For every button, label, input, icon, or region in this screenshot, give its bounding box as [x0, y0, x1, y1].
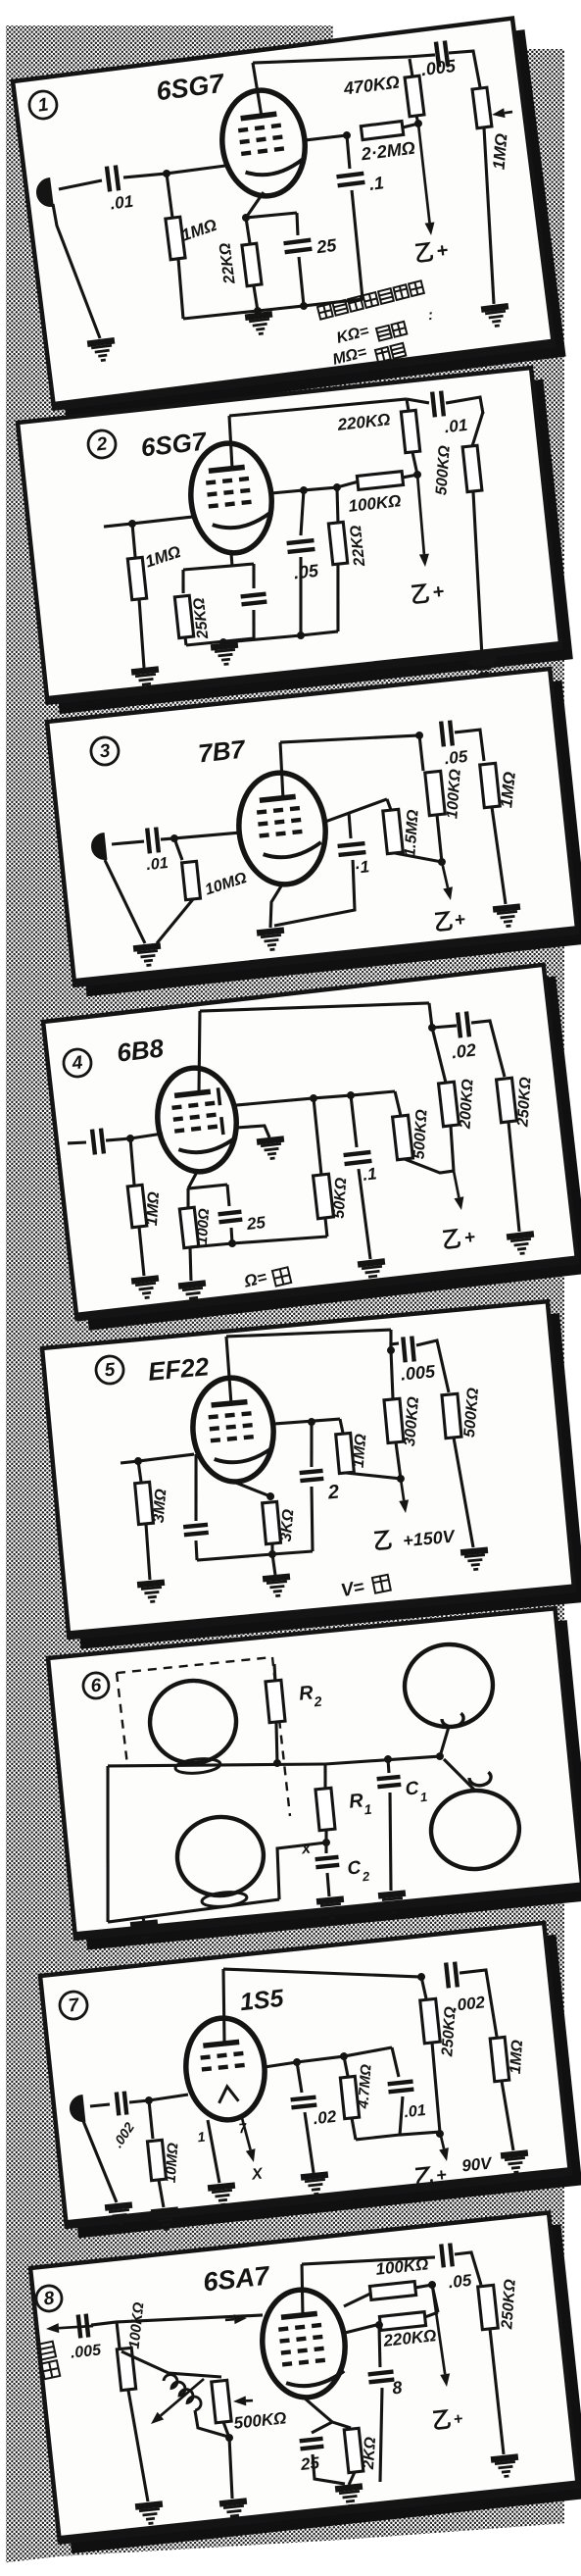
label yi B-plus — [433, 2410, 450, 2429]
wire 300K bottom — [396, 1442, 401, 1479]
svg-text:1.5MΩ: 1.5MΩ — [402, 809, 421, 858]
wire 500K top — [468, 412, 486, 446]
wire pickup to cap — [90, 2104, 110, 2106]
B+ arrow — [437, 2131, 450, 2161]
note capacitor units — [317, 280, 424, 319]
ground center — [245, 314, 274, 335]
wire C1 top — [388, 1759, 390, 1773]
svg-text:500KΩ: 500KΩ — [411, 1108, 430, 1159]
resistor 100K right — [369, 2282, 415, 2300]
bias top wire — [188, 1184, 227, 1188]
wire C.05 down — [293, 557, 310, 635]
svg-text:.01: .01 — [146, 855, 169, 874]
capacitor .02 — [291, 2097, 317, 2108]
resistor 2K — [344, 2428, 363, 2472]
wire node to tube — [130, 1134, 163, 1138]
node loop left — [340, 2052, 349, 2061]
panel 4 (6B8 stage) shadow — [55, 976, 581, 1330]
node plate rail — [387, 1346, 396, 1355]
svg-text:C: C — [347, 1857, 363, 1879]
wire R1M down — [138, 1227, 144, 1276]
ground 3K — [263, 1577, 292, 1597]
dashed box top — [117, 1657, 272, 1673]
wire grid cap — [190, 1454, 203, 1521]
ground cathode — [211, 644, 240, 665]
svg-text:10MΩ: 10MΩ — [163, 2142, 182, 2183]
panel 6 (oscillator coils) — [48, 1607, 581, 1950]
node grid — [145, 2096, 154, 2105]
wire 100K to node — [437, 815, 442, 862]
wire R2 bottom — [273, 1722, 280, 1762]
wire C2 down — [307, 1487, 317, 1551]
svg-text:1: 1 — [419, 1790, 428, 1805]
wire R1 bottom — [324, 1830, 329, 1853]
ground right — [493, 907, 522, 928]
plate lead to top rail — [253, 63, 262, 118]
resistor 1M — [127, 557, 146, 599]
coil bottom-right — [427, 1787, 522, 1873]
wire pickup to C.01 — [112, 841, 144, 845]
B+ arrow — [411, 475, 430, 568]
input arrow to previous stage — [46, 2319, 94, 2334]
resistor R1 — [315, 1788, 335, 1830]
capacitor 25 — [300, 2439, 324, 2450]
panel 4 (6B8 stage) bottom border — [76, 1260, 577, 1317]
wire C.1 top — [351, 1095, 357, 1147]
capacitor .01 — [107, 166, 119, 192]
panel 6 (oscillator coils) bottom border — [75, 1887, 581, 1937]
wire lower coil to junction — [444, 1756, 475, 1793]
node top rail — [417, 1973, 426, 1982]
label qianji previous-stage — [37, 2342, 60, 2380]
node bias rail — [228, 1239, 237, 1248]
wire .01 bottom — [396, 2096, 407, 2135]
curl bottom-right — [469, 1772, 492, 1787]
wire screen node to C.1 — [346, 135, 352, 169]
wire cathode to node — [243, 192, 266, 218]
wire R10M down — [153, 899, 198, 943]
coil top-left cap — [174, 1757, 220, 1775]
ground 1M — [131, 1278, 161, 1298]
node .02 left — [428, 1024, 437, 1033]
panel 1 (6SG7 stage) shadow — [25, 29, 566, 420]
top rail — [253, 43, 408, 76]
wire C.1 down to rail — [349, 190, 365, 299]
label yi+ B-plus — [435, 912, 452, 930]
potentiometer 500K — [212, 2380, 231, 2422]
wire 500K to ground — [464, 491, 491, 657]
capacitor .1 — [338, 843, 366, 855]
node B+ junction — [413, 471, 422, 480]
panel 7 (1S5 stage) paper — [40, 1923, 570, 2227]
wire 1M bottom — [346, 1468, 401, 1484]
wire C.01 right — [446, 397, 483, 418]
node top rail — [415, 732, 424, 740]
pot wiper arrow — [233, 2396, 254, 2407]
bias bottom rail — [190, 1232, 327, 1252]
svg-text:500KΩ: 500KΩ — [433, 444, 453, 495]
resistor 1M — [480, 763, 501, 807]
wire R25K to bottom — [183, 637, 187, 645]
panel 8 (6SA7 stage) paper — [30, 2212, 578, 2542]
wire node to R3M — [138, 1461, 141, 1482]
resistor 1M — [490, 2037, 509, 2081]
wire node to tube — [149, 2095, 188, 2100]
wire 220K to node — [412, 452, 417, 476]
resistor 250K — [420, 1998, 441, 2043]
plate lead to top rail — [297, 2264, 307, 2316]
wire R1M to bottom rail — [175, 259, 185, 319]
wire C25 to rail — [298, 257, 306, 306]
wire cap to node — [106, 1137, 130, 1141]
capacitor .01 — [432, 391, 444, 418]
cathode lead — [231, 553, 233, 566]
wire grid node to tube — [167, 166, 225, 174]
resistor 22K — [242, 243, 262, 286]
capacitor grid — [183, 1525, 209, 1535]
wire 200K top — [432, 1027, 446, 1084]
wire cap to node — [129, 2100, 149, 2102]
panel 7 (1S5 stage) bottom border — [67, 2172, 570, 2225]
resistor 3K — [263, 1501, 281, 1543]
capacitor .05 — [441, 721, 453, 747]
svg-text:1MΩ: 1MΩ — [508, 2039, 526, 2074]
resistor R2 — [266, 1680, 285, 1722]
ground pickup — [105, 2205, 134, 2226]
resistor 500K — [393, 1115, 413, 1160]
wire pickup to ground — [53, 200, 100, 342]
svg-text:25: 25 — [315, 235, 338, 258]
node screen C2 — [308, 1418, 316, 1427]
ground C2 — [316, 1899, 346, 1920]
capacitor .1 — [344, 1152, 372, 1164]
left vertical wire — [93, 1766, 123, 1922]
wire 1.5M to node — [395, 848, 442, 867]
wire 250K top — [421, 1977, 426, 1999]
capacitor .002 input — [117, 2092, 126, 2116]
node cathode gnd — [219, 638, 228, 647]
node grid junction — [163, 169, 171, 177]
capacitor cathode — [241, 594, 267, 605]
ground 3M — [137, 1583, 167, 1603]
node grid — [126, 1135, 135, 1143]
panel 3 (7B7 stage) bottom border — [74, 931, 577, 984]
ground C1 — [378, 1894, 408, 1914]
node diode rail C1 — [347, 1091, 356, 1100]
node B+ junction — [413, 119, 422, 127]
wire R10M down — [159, 2180, 164, 2207]
svg-text:25: 25 — [299, 2453, 320, 2474]
capacitor .002 top — [446, 1962, 458, 1989]
panel 2 (6SG7 stage) paper — [18, 368, 561, 702]
wire right coils junction — [437, 1727, 452, 1756]
node R2 rail — [273, 1759, 282, 1768]
panel 6 (oscillator coils) shadow — [60, 1620, 581, 1949]
capacitor .1 — [337, 174, 365, 185]
svg-text:2: 2 — [313, 1693, 323, 1710]
ground 100K — [135, 2504, 165, 2525]
node screen-C05 — [300, 486, 309, 495]
panel 2 (6SG7 stage) — [18, 367, 574, 725]
svg-text:2KΩ: 2KΩ — [361, 2436, 379, 2471]
wire 470K top — [410, 59, 412, 76]
tube 6B8 envelope — [152, 1064, 241, 1176]
wire cap right — [460, 1970, 497, 2041]
coil top-left — [146, 1677, 240, 1767]
node grid — [134, 1457, 143, 1466]
label yi B-plus — [374, 1532, 391, 1549]
note fu glyph — [372, 1575, 391, 1593]
wire node to R10M — [174, 837, 182, 860]
ground bottom-left — [130, 1923, 160, 1944]
svg-text:6B8: 6B8 — [116, 1033, 166, 1067]
svg-text:.02: .02 — [451, 1040, 477, 1063]
plate lead to top rail — [226, 416, 234, 469]
osc coil lead top — [169, 2367, 221, 2382]
ground diode — [257, 1138, 286, 1159]
node B+ — [436, 2130, 445, 2139]
wire 500K bottom — [223, 2421, 229, 2438]
svg-text:.05: .05 — [293, 561, 320, 583]
svg-text:.1: .1 — [362, 1164, 377, 1184]
wire corner down — [117, 2322, 120, 2349]
wire 8 down — [370, 2388, 392, 2482]
tube EF22 envelope — [188, 1374, 277, 1485]
node B+ — [438, 858, 447, 867]
wire 22K down — [331, 565, 345, 631]
node screen — [343, 131, 352, 140]
ground right — [469, 659, 499, 680]
panel 3 (7B7 stage) paper — [47, 669, 577, 985]
panel 1 (6SG7 stage) paper — [13, 19, 554, 409]
svg-text:1MΩ: 1MΩ — [351, 1433, 370, 1469]
wire node to tube — [138, 1454, 194, 1461]
svg-text:250KΩ: 250KΩ — [514, 1076, 534, 1128]
wire 22K top — [334, 487, 341, 523]
plate lead to top rail — [277, 742, 286, 799]
screen rail — [273, 1418, 340, 1426]
cathode net bottom wire — [186, 638, 254, 646]
wire down to R25K — [181, 570, 186, 593]
ground bottom right — [481, 306, 510, 328]
ground 2K — [335, 2487, 364, 2507]
node bottom rail — [268, 1550, 277, 1559]
tube 7B7 envelope — [233, 769, 330, 889]
node screen-R100K — [333, 483, 342, 492]
plate lead to top rail — [217, 1969, 231, 2045]
wire 250K down — [490, 2329, 504, 2454]
wire plate to C.1 — [348, 813, 351, 838]
wire 8 cap top — [375, 2325, 383, 2367]
wire cap to corner — [91, 2322, 117, 2325]
ground 100 — [178, 1283, 208, 1303]
bottom wire up — [274, 1843, 331, 1899]
svg-text:200KΩ: 200KΩ — [457, 1078, 476, 1130]
panel 1 (6SG7 stage) — [13, 17, 566, 421]
plate wire to 100K — [343, 2294, 371, 2306]
tube 1S5 envelope — [181, 2014, 269, 2124]
svg-text:·1: ·1 — [354, 857, 370, 877]
svg-text:1MΩ: 1MΩ — [490, 132, 511, 170]
wire 2.2M to B+ node — [403, 124, 418, 127]
loop bottom wire — [356, 2131, 440, 2141]
bottom wire — [107, 1899, 279, 1922]
ground 10M — [151, 2210, 180, 2231]
cathode lead — [186, 1172, 199, 1188]
wire 3K bottom — [271, 1543, 273, 1554]
resistor 500K — [462, 445, 482, 491]
top rail — [200, 985, 429, 1030]
tube 6SA7 envelope — [257, 2286, 350, 2401]
node C1 rail — [384, 1755, 393, 1764]
wire 200K to arrow — [449, 1126, 456, 1171]
panel 8 (6SA7 stage) — [29, 2211, 581, 2554]
B+ arrow — [440, 861, 454, 901]
circled number 5 — [95, 1355, 124, 1385]
B+ arrow — [430, 2284, 451, 2387]
diode wire to ground — [236, 1124, 269, 1140]
wire .02 left lead — [432, 1025, 457, 1029]
node 8 cap — [375, 2321, 384, 2330]
loop top wire — [344, 2047, 393, 2056]
svg-text:.1: .1 — [368, 173, 385, 194]
panel 4 (6B8 stage) paper — [43, 965, 577, 1319]
wire 4.7M bottom — [352, 2118, 356, 2140]
panel 5 (EF22 stage) shadow — [54, 1313, 581, 1649]
wire C.1 down — [268, 860, 359, 926]
svg-text:1S5: 1S5 — [239, 1985, 286, 2017]
capacitor 8 — [368, 2372, 395, 2383]
wire C2 down — [327, 1873, 330, 1896]
svg-text:.01: .01 — [109, 192, 134, 214]
wire node to R10M — [149, 2100, 153, 2139]
output rail — [265, 2056, 345, 2067]
screen wire — [271, 486, 337, 494]
ground center — [257, 931, 286, 951]
node input — [128, 520, 137, 529]
wire .02 top — [297, 2062, 302, 2093]
wire 1M down — [492, 807, 506, 905]
ground 250K — [491, 2456, 520, 2477]
wire grid node to R 1M — [167, 174, 172, 218]
wire .02 right — [471, 1020, 505, 1080]
resistor 1.5M — [383, 809, 404, 853]
circled number 2 — [87, 429, 118, 460]
diode rail — [236, 1087, 395, 1110]
svg-text:4.7MΩ: 4.7MΩ — [355, 2063, 374, 2109]
ground 250K — [507, 1234, 536, 1254]
resistor 100K — [357, 472, 403, 490]
plate lead to top rail — [189, 1011, 209, 1094]
ground 1M — [501, 2153, 530, 2174]
potentiometer 1M right — [472, 87, 492, 128]
capacitor .01 — [147, 828, 159, 854]
wire 220K right — [425, 2312, 439, 2317]
panel 3 (7B7 stage) shadow — [59, 681, 581, 996]
wire node to tube — [174, 832, 240, 839]
label yi B-plus — [415, 2167, 432, 2185]
wire 25 branch — [311, 2422, 333, 2433]
resistor 100K — [425, 771, 446, 815]
circled number 1 — [27, 89, 58, 120]
panel 5 (EF22 stage) bottom border — [69, 1589, 574, 1636]
svg-text:R: R — [298, 1682, 315, 1704]
wire R100 down — [187, 1247, 194, 1281]
B+ arrow — [412, 123, 436, 235]
wire C.01 to grid node — [123, 172, 167, 178]
resistor 25K — [174, 595, 193, 637]
osc diagonal — [121, 2347, 169, 2378]
wire to C.05 — [296, 490, 309, 535]
wire 500K top — [395, 1091, 401, 1117]
top rail — [302, 2250, 435, 2272]
pin7 arrow X — [242, 2117, 257, 2163]
wire 100K down — [128, 2390, 148, 2502]
panel 3 (7B7 stage) — [47, 668, 581, 998]
capacitor .02 — [458, 1012, 469, 1038]
cathode lead — [304, 2395, 332, 2425]
resistor 220K — [379, 2312, 425, 2331]
coil bottom-left — [173, 1813, 266, 1899]
ground .1 — [358, 1261, 387, 1282]
ground pin1 — [208, 2186, 237, 2206]
B+ arrow — [451, 1170, 465, 1210]
resistor 4.7M — [340, 2076, 359, 2118]
node rail-ground — [254, 307, 263, 316]
middle rail — [108, 1744, 325, 1785]
dashed box left — [117, 1673, 127, 1765]
capacitor .05 — [441, 2244, 452, 2268]
wire plate rail to 1.5M — [387, 799, 391, 811]
wire C.01 to node — [161, 838, 174, 840]
wire C05 rail join — [224, 631, 338, 644]
svg-text:.02: .02 — [313, 2107, 338, 2128]
wire screen node to 100K — [337, 481, 360, 487]
capacitor input — [92, 1129, 104, 1155]
svg-text:250KΩ: 250KΩ — [499, 2278, 519, 2330]
wire C1 down — [381, 1793, 399, 1891]
wire cathode node to R22K — [246, 218, 250, 243]
wire R2 top — [273, 1664, 275, 1681]
wire .05 right — [455, 2251, 481, 2287]
wire 250K down — [430, 2043, 441, 2132]
capacitor 25 — [218, 1212, 243, 1223]
wire C25 down — [230, 1228, 233, 1243]
wire R1 top — [323, 1764, 328, 1789]
tube 6SG7 envelope — [217, 85, 312, 201]
wire to C25 top — [295, 213, 300, 235]
resistor 1M — [336, 1433, 355, 1473]
node rail — [297, 631, 306, 640]
panel 2 (6SG7 stage) shadow — [29, 379, 573, 714]
wire to C.005 — [390, 1343, 399, 1350]
B+ arrow — [397, 1478, 410, 1513]
panel 1 (6SG7 stage) bottom border — [54, 343, 554, 406]
node grid — [170, 834, 179, 843]
screen wire tube to node — [305, 135, 347, 141]
capacitor C2 — [315, 1857, 340, 1867]
capacitor 2 — [300, 1471, 324, 1481]
ground stem 3K — [272, 1554, 275, 1575]
cathode lead — [233, 1479, 270, 1500]
svg-text:.005: .005 — [400, 1361, 437, 1384]
wire 2K down — [348, 2472, 357, 2485]
dashed box right — [272, 1657, 290, 1816]
loop right side — [392, 2047, 399, 2078]
wire R1M to ground — [137, 599, 147, 668]
wire 300K top — [388, 1350, 395, 1399]
resistor 250K — [497, 1078, 517, 1123]
